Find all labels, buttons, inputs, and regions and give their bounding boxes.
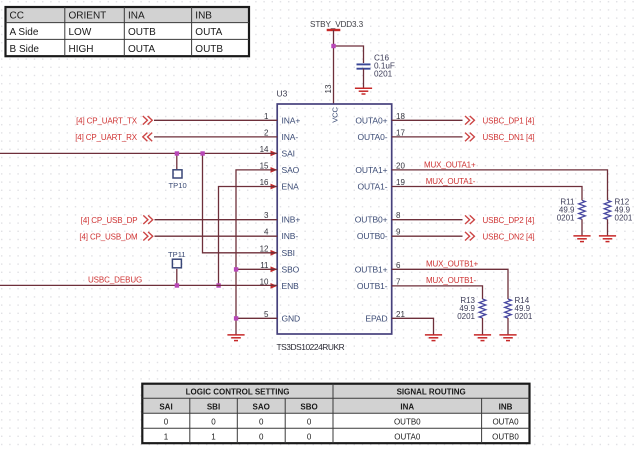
svg-text:SAI: SAI — [282, 148, 295, 158]
label CP_UART_TX — [76, 116, 152, 125]
svg-text:INA: INA — [128, 11, 145, 22]
svg-text:SIGNAL ROUTING: SIGNAL ROUTING — [397, 388, 466, 397]
svg-text:EPAD: EPAD — [365, 313, 387, 323]
svg-text:[4] CP_UART_RX: [4] CP_UART_RX — [75, 133, 138, 142]
svg-text:TS3DS10224RUKR: TS3DS10224RUKR — [277, 342, 345, 352]
pin numbers right side — [396, 112, 405, 319]
svg-text:ORIENT: ORIENT — [69, 11, 107, 22]
pin input arrowheads (control pins) — [271, 151, 278, 289]
svg-text:20: 20 — [396, 161, 405, 170]
svg-text:STBY_VDD3.3: STBY_VDD3.3 — [310, 20, 364, 29]
wire INA+ net (CP_UART_TX) — [154, 119, 277, 121]
svg-text:0: 0 — [307, 432, 312, 441]
wire MUX_OUTA1- net — [392, 187, 582, 201]
svg-text:A Side: A Side — [10, 27, 39, 38]
pin numbers left side — [260, 112, 269, 319]
svg-text:17: 17 — [396, 128, 405, 137]
svg-text:8: 8 — [396, 211, 401, 220]
svg-text:USBC_DP2 [4]: USBC_DP2 [4] — [483, 216, 535, 225]
resistor R13 — [457, 296, 486, 321]
wire USBC_DEBUG / ENB net — [0, 269, 277, 286]
svg-text:VCC: VCC — [330, 106, 339, 122]
svg-text:HIGH: HIGH — [69, 44, 94, 55]
svg-text:1: 1 — [164, 432, 169, 441]
junction VCC net — [331, 44, 335, 48]
svg-text:SBO: SBO — [282, 264, 300, 274]
svg-text:OUTB: OUTB — [128, 27, 156, 38]
svg-text:9: 9 — [396, 228, 401, 237]
wire MUX_OUTB1- net — [392, 286, 483, 299]
svg-text:USBC_DN1 [4]: USBC_DN1 [4] — [483, 133, 535, 142]
svg-text:[4] CP_UART_TX: [4] CP_UART_TX — [76, 116, 138, 125]
wire C16 to ground — [363, 69, 365, 89]
label CP_USB_DP — [81, 215, 153, 224]
svg-text:CC: CC — [10, 11, 24, 22]
junction SAI at TP10 — [175, 151, 179, 155]
label USBC_DN2 — [465, 232, 535, 241]
junction ENA to ENB — [216, 283, 220, 287]
IC U3 TS3DS10224RUKR body — [277, 89, 392, 353]
wire SAO/SBO/GND net — [236, 170, 277, 335]
svg-text:11: 11 — [260, 261, 269, 270]
svg-text:13: 13 — [324, 84, 333, 93]
svg-text:OUTB1+: OUTB1+ — [355, 264, 388, 274]
svg-text:0: 0 — [307, 417, 312, 426]
svg-text:USBC_DN2 [4]: USBC_DN2 [4] — [483, 232, 535, 241]
svg-text:3: 3 — [264, 211, 269, 220]
capacitor C16 — [357, 54, 395, 79]
svg-text:MUX_OUTA1-: MUX_OUTA1- — [426, 177, 476, 186]
svg-text:0201: 0201 — [515, 312, 533, 321]
svg-text:ENB: ENB — [282, 281, 300, 291]
resistor R12 — [604, 197, 633, 222]
ground (R11) — [573, 236, 590, 242]
svg-text:OUTA0: OUTA0 — [492, 417, 519, 426]
svg-text:OUTA: OUTA — [195, 27, 222, 38]
svg-text:OUTA: OUTA — [128, 44, 155, 55]
svg-text:1: 1 — [264, 112, 269, 121]
wire INB+ net (CP_USB_DP) — [155, 219, 278, 221]
svg-text:TP10: TP10 — [169, 181, 187, 190]
svg-text:U3: U3 — [277, 89, 288, 99]
wire R13 to ground — [482, 318, 484, 335]
svg-text:SAO: SAO — [253, 402, 270, 411]
svg-text:INB: INB — [195, 11, 212, 22]
svg-text:MUX_OUTA1+: MUX_OUTA1+ — [424, 161, 476, 170]
svg-text:5: 5 — [264, 310, 269, 319]
svg-text:USBC_DP1 [4]: USBC_DP1 [4] — [483, 116, 535, 125]
svg-text:0: 0 — [259, 417, 264, 426]
svg-text:MUX_OUTB1-: MUX_OUTB1- — [426, 276, 477, 285]
svg-text:GND: GND — [282, 313, 301, 323]
junction SAI to SBI — [200, 151, 204, 155]
ground (EPAD) — [425, 335, 442, 341]
wire MUX_OUTA1+ net — [392, 170, 608, 200]
wire MUX_OUTB1+ net — [392, 269, 508, 299]
svg-text:16: 16 — [260, 178, 269, 187]
svg-text:12: 12 — [260, 244, 269, 253]
svg-text:0201: 0201 — [457, 312, 475, 321]
resistor R14 — [505, 296, 533, 321]
svg-text:[4] CP_USB_DM: [4] CP_USB_DM — [79, 232, 138, 241]
label USBC_DP1 — [465, 116, 534, 125]
wire OUTB0+ net (USBC_DP2) — [392, 219, 463, 221]
wire INB- net (CP_USB_DM) — [155, 235, 278, 237]
svg-text:INA-: INA- — [282, 132, 299, 142]
testpoint TP10 — [169, 170, 187, 190]
wire OUTA0- net (USBC_DN1) — [392, 136, 463, 138]
wire SAI/SBI net — [0, 153, 277, 252]
ground (R13) — [474, 335, 491, 341]
svg-text:INB+: INB+ — [282, 215, 301, 225]
svg-text:ENA: ENA — [282, 182, 300, 192]
wire VCC branch to C16 — [334, 46, 364, 63]
svg-text:4: 4 — [264, 228, 269, 237]
svg-text:2: 2 — [264, 128, 269, 137]
ground (C16) — [355, 88, 372, 94]
svg-text:0: 0 — [211, 417, 216, 426]
svg-text:LOW: LOW — [69, 27, 92, 38]
svg-text:OUTA0+: OUTA0+ — [355, 115, 387, 125]
svg-text:INA+: INA+ — [282, 115, 301, 125]
svg-text:OUTB: OUTB — [195, 44, 223, 55]
power symbol STBY_VDD3.3 — [310, 20, 364, 30]
junction SBO — [234, 267, 238, 271]
wire EPAD net — [392, 318, 434, 335]
svg-text:TP11: TP11 — [168, 250, 186, 259]
wire INA- net (CP_UART_RX) — [154, 136, 277, 138]
wire ENA net — [219, 187, 278, 286]
wire R11 to ground — [581, 219, 583, 236]
svg-text:MUX_OUTB1+: MUX_OUTB1+ — [426, 260, 479, 269]
svg-text:B Side: B Side — [10, 44, 40, 55]
table CC-orientation (top-left) — [6, 7, 250, 56]
svg-text:INB-: INB- — [282, 231, 299, 241]
wire OUTB0- net (USBC_DN2) — [392, 235, 463, 237]
svg-text:SAI: SAI — [159, 402, 172, 411]
svg-text:[4] CP_USB_DP: [4] CP_USB_DP — [81, 216, 138, 225]
svg-text:0201: 0201 — [557, 213, 575, 222]
svg-text:14: 14 — [260, 145, 269, 154]
svg-text:15: 15 — [260, 161, 269, 170]
svg-text:0: 0 — [259, 432, 264, 441]
svg-text:INA: INA — [400, 402, 414, 411]
svg-text:LOGIC CONTROL SETTING: LOGIC CONTROL SETTING — [186, 388, 290, 397]
svg-text:USBC_DEBUG: USBC_DEBUG — [88, 276, 142, 285]
junction TP11 — [175, 283, 179, 287]
svg-text:OUTA1+: OUTA1+ — [355, 165, 387, 175]
svg-text:OUTB0-: OUTB0- — [357, 231, 388, 241]
wire R12 to ground — [607, 219, 609, 236]
label USBC_DP2 — [465, 215, 534, 224]
ground (GND pin net) — [227, 335, 244, 341]
label CP_UART_RX — [75, 133, 152, 142]
wire R14 to ground — [507, 318, 509, 335]
resistor R11 — [557, 197, 586, 222]
svg-text:OUTB0: OUTB0 — [394, 417, 421, 426]
svg-text:INB: INB — [499, 402, 513, 411]
svg-text:6: 6 — [396, 261, 401, 270]
svg-text:OUTA1-: OUTA1- — [358, 182, 388, 192]
ground (R14) — [499, 335, 516, 341]
svg-text:SBO: SBO — [300, 402, 317, 411]
svg-text:7: 7 — [396, 277, 401, 286]
svg-text:SAO: SAO — [282, 165, 300, 175]
svg-text:SBI: SBI — [207, 402, 220, 411]
svg-text:OUTB0: OUTB0 — [492, 432, 519, 441]
svg-text:OUTB1-: OUTB1- — [357, 281, 388, 291]
table logic-control / signal-routing (bottom) — [142, 384, 529, 444]
label USBC_DN1 — [465, 133, 535, 142]
svg-text:21: 21 — [396, 310, 405, 319]
testpoint TP11 — [168, 250, 186, 268]
svg-text:1: 1 — [211, 432, 216, 441]
wire OUTA0+ net (USBC_DP1) — [392, 119, 463, 121]
svg-text:SBI: SBI — [282, 248, 295, 258]
svg-text:0: 0 — [164, 417, 169, 426]
svg-text:18: 18 — [396, 112, 405, 121]
svg-text:0201: 0201 — [374, 70, 393, 79]
svg-text:19: 19 — [396, 178, 405, 187]
junction GND — [234, 316, 238, 320]
wire VCC net vertical to pin 13 — [333, 30, 335, 104]
svg-text:OUTA0: OUTA0 — [394, 432, 421, 441]
svg-text:OUTA0-: OUTA0- — [358, 132, 388, 142]
svg-text:0201: 0201 — [615, 213, 633, 222]
label CP_USB_DM — [79, 232, 152, 241]
ground (R12) — [599, 236, 616, 242]
svg-text:OUTB0+: OUTB0+ — [355, 215, 388, 225]
